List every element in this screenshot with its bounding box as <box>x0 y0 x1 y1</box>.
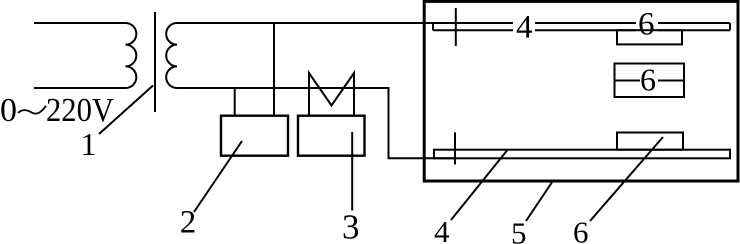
svg-text:220V: 220V <box>46 91 114 129</box>
svg-text:1: 1 <box>81 126 97 162</box>
svg-text:4: 4 <box>516 10 533 46</box>
svg-text:3: 3 <box>342 208 360 244</box>
svg-text:6: 6 <box>640 62 656 98</box>
svg-text:6: 6 <box>573 215 589 244</box>
svg-text:6: 6 <box>638 7 655 43</box>
svg-text:4: 4 <box>434 214 450 244</box>
svg-text:2: 2 <box>180 205 197 241</box>
svg-text:0: 0 <box>0 92 17 129</box>
svg-text:5: 5 <box>511 216 527 244</box>
